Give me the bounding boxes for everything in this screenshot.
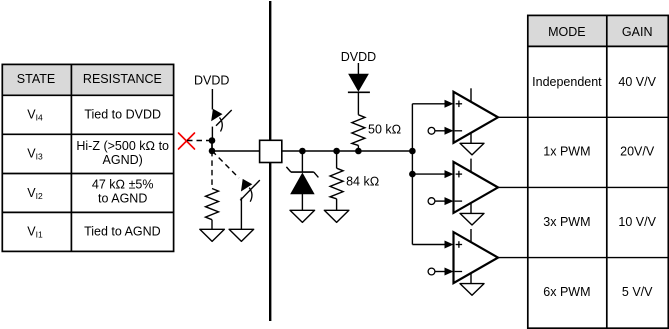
chip boundary line <box>269 1 271 140</box>
wire + input U3 <box>412 244 446 246</box>
svg-text:STATE: STATE <box>17 72 55 86</box>
op-amp U2 <box>412 159 498 214</box>
pin square (package pin) <box>260 140 282 162</box>
ground (U1) <box>460 143 484 155</box>
svg-text:to AGND: to AGND <box>98 191 147 205</box>
wire + input U2 <box>412 173 446 175</box>
node dot lower (pin node) <box>209 148 216 155</box>
wire DVDD to diode <box>357 63 359 75</box>
wire 50k to node <box>357 145 359 151</box>
wire - input U1 <box>435 130 446 132</box>
column divider <box>70 64 72 251</box>
svg-text:Tied to AGND: Tied to AGND <box>84 225 161 239</box>
switch SW1 to DVDD <box>212 110 232 139</box>
svg-text:1x PWM: 1x PWM <box>543 145 590 159</box>
diode D (to DVDD) <box>348 74 370 115</box>
header fill <box>2 64 173 95</box>
node 84k <box>333 148 340 155</box>
svg-text:VI4: VI4 <box>27 107 43 122</box>
ground (SW2) <box>229 229 254 241</box>
wire DVDD to switch SW1 <box>211 89 213 110</box>
terminal circle - input U1 <box>428 127 435 134</box>
wire to zener <box>301 151 303 172</box>
svg-text:MODE: MODE <box>548 25 586 39</box>
node zener <box>299 148 306 155</box>
switch SW2 to AGND <box>240 180 260 230</box>
dashed wire node to resistor (47k) <box>211 151 213 189</box>
op-amp U1 <box>412 88 498 143</box>
svg-text:10 V/V: 10 V/V <box>618 215 656 229</box>
node 50k <box>355 148 362 155</box>
node bus opamp2 tap <box>409 171 416 178</box>
op-amp U3 <box>412 229 498 284</box>
svg-text:50 kΩ: 50 kΩ <box>368 122 401 136</box>
right table MODE/GAIN <box>528 15 669 328</box>
left table STATE/RESISTANCE <box>2 64 173 251</box>
resistor R 50k <box>352 115 365 146</box>
ground (84k) <box>324 210 349 222</box>
ground (zener) <box>290 210 315 222</box>
main wire pin to opamp bus <box>282 150 413 152</box>
red X no-connect mark <box>179 133 195 149</box>
resistor R 84k <box>330 168 343 199</box>
dashed wire node to switch SW2 <box>212 151 239 178</box>
terminal circle - input U2 <box>428 198 435 205</box>
wire between dots <box>211 141 213 151</box>
wire to 84k resistor <box>336 151 338 168</box>
svg-text:VI2: VI2 <box>27 186 43 201</box>
svg-text:40 V/V: 40 V/V <box>618 75 656 89</box>
svg-text:VI3: VI3 <box>27 147 43 162</box>
wire + input U1 <box>412 103 446 105</box>
node bus junction <box>409 148 416 155</box>
svg-text:84 kΩ: 84 kΩ <box>346 175 379 189</box>
svg-text:Independent: Independent <box>532 75 602 89</box>
svg-text:DVDD: DVDD <box>341 50 376 64</box>
svg-text:VI1: VI1 <box>27 225 43 240</box>
svg-text:20V/V: 20V/V <box>620 145 655 159</box>
svg-text:Tied to DVDD: Tied to DVDD <box>84 108 161 122</box>
svg-text:6x PWM: 6x PWM <box>543 285 590 299</box>
column divider <box>606 15 608 328</box>
ground (U3) <box>460 284 484 296</box>
ground (U2) <box>460 213 484 225</box>
ground (left resistor) <box>200 229 225 241</box>
resistor 47k (left, unlabeled) <box>206 189 219 220</box>
wire U1 output <box>498 116 528 118</box>
svg-text:3x PWM: 3x PWM <box>543 215 590 229</box>
svg-text:5 V/V: 5 V/V <box>622 285 653 299</box>
header fill <box>528 15 669 46</box>
wire - input U3 <box>435 271 446 273</box>
wire 84k to ground <box>336 199 338 211</box>
wire resistor to ground <box>211 220 213 230</box>
svg-text:AGND): AGND) <box>103 153 143 167</box>
svg-text:DVDD: DVDD <box>194 73 229 87</box>
wire U2 output <box>498 186 528 188</box>
bus vertical wire <box>411 104 413 245</box>
wire - input U2 <box>435 200 446 202</box>
table outer border <box>528 15 669 328</box>
svg-text:GAIN: GAIN <box>622 25 653 39</box>
row lines <box>528 45 669 47</box>
svg-text:Hi-Z (>500 kΩ to: Hi-Z (>500 kΩ to <box>76 139 169 153</box>
svg-text:47 kΩ ±5%: 47 kΩ ±5% <box>92 177 154 191</box>
svg-text:RESISTANCE: RESISTANCE <box>83 72 162 86</box>
zener diode (ESD) <box>286 167 318 210</box>
row lines <box>2 94 173 96</box>
node dot upper <box>209 137 216 144</box>
terminal circle - input U3 <box>428 268 435 275</box>
wire node to pin square <box>212 150 260 152</box>
wire U3 output <box>498 257 528 259</box>
wire dashed from X to node <box>187 140 209 142</box>
table outer border <box>2 64 173 251</box>
